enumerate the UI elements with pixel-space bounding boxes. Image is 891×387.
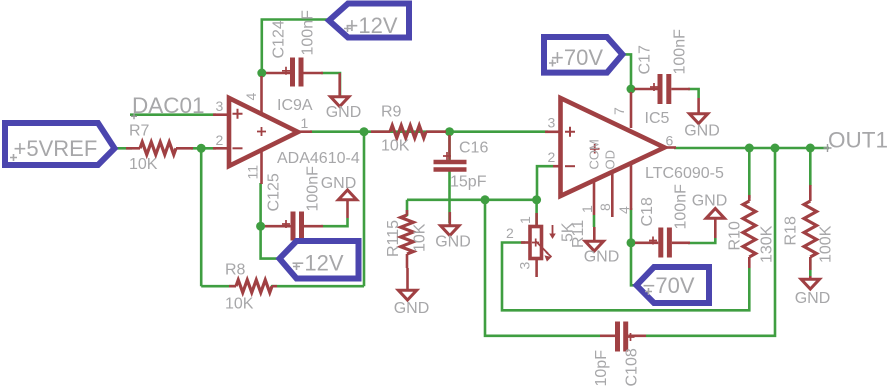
pin number 4 of IC5 — [616, 206, 632, 214]
svg-text:C17: C17 — [637, 45, 654, 74]
wire +5VREF to R7 — [114, 147, 132, 150]
svg-text:C125: C125 — [266, 173, 283, 211]
wire C16 bottom to GND and rail — [448, 171, 451, 223]
wire outer feedback loop left — [485, 200, 600, 336]
svg-text:6: 6 — [666, 133, 674, 149]
label R11 5K — [560, 220, 588, 248]
svg-text:OUT1: OUT1 — [828, 128, 888, 153]
svg-text:GND: GND — [692, 193, 728, 210]
svg-text:7: 7 — [611, 107, 627, 115]
svg-text:1: 1 — [579, 205, 595, 213]
label R18 — [783, 216, 835, 263]
wire R8 right to feedback column — [271, 285, 364, 288]
wire output to R18 — [809, 148, 812, 186]
wire C125 node to -12V — [261, 226, 281, 258]
svg-text:100K: 100K — [818, 225, 835, 263]
svg-text:8: 8 — [597, 203, 613, 211]
wire C125 to GND — [321, 218, 348, 226]
svg-text:GND: GND — [795, 290, 831, 307]
svg-text:130K: 130K — [759, 225, 776, 263]
svg-text:10K: 10K — [412, 223, 429, 252]
wire output to R10 — [748, 148, 751, 198]
junction +70V/C17/pin7 — [627, 85, 636, 94]
net label DAC01 — [131, 93, 205, 119]
pin number 1 of R11 — [517, 216, 533, 224]
wire feedback column up to output node — [363, 132, 366, 287]
svg-text:GND: GND — [321, 175, 357, 192]
label R7 — [129, 123, 158, 174]
junction C125/-12V/pin11 node — [256, 222, 265, 231]
capacitor C108 — [600, 322, 646, 352]
svg-text:GND: GND — [326, 104, 362, 121]
svg-text:2: 2 — [506, 225, 514, 241]
pin number 2 of R11 — [506, 225, 514, 241]
wire C18 to GND — [688, 238, 715, 243]
svg-text:+5VREF: +5VREF — [14, 136, 98, 161]
svg-text:R7: R7 — [129, 123, 150, 140]
ground at C124 — [326, 73, 362, 121]
junction rail/trimmer/pin2 — [532, 195, 541, 204]
svg-text:15pF: 15pF — [450, 174, 487, 191]
svg-text:1: 1 — [301, 115, 309, 131]
op-amp U IC5 triangle — [545, 92, 676, 217]
svg-text:10pF: 10pF — [593, 350, 610, 387]
pin number 3 of IC9A — [216, 98, 224, 114]
svg-text:100nF: 100nF — [673, 184, 690, 230]
svg-text:C108: C108 — [624, 348, 641, 386]
wire IC9A pin 11 to C125 node — [259, 183, 262, 229]
wire trimmer pin 2 loop to R10 bottom — [502, 243, 749, 311]
svg-text:10K: 10K — [225, 296, 254, 313]
label R9 — [381, 104, 410, 155]
svg-text:−12V: −12V — [292, 251, 344, 276]
capacitor C18 — [635, 228, 690, 258]
svg-text:+12V: +12V — [346, 13, 398, 38]
wire rail up to IC5 pin 2 — [537, 166, 553, 200]
svg-text:IC5: IC5 — [645, 110, 670, 127]
svg-text:R115: R115 — [385, 220, 402, 257]
wire +70V to pin 7 node — [621, 54, 631, 92]
wire outer feedback loop right — [646, 148, 775, 336]
svg-text:4: 4 — [243, 93, 259, 101]
svg-text:4: 4 — [616, 206, 632, 214]
ground at R18 — [795, 276, 831, 307]
pin number 4 of IC9A — [243, 93, 259, 101]
junction rail/outer loop — [481, 195, 490, 204]
svg-text:−70V: −70V — [643, 273, 695, 298]
svg-text:R8: R8 — [225, 262, 246, 279]
junction output/R18 — [806, 144, 815, 153]
resistor R18 — [804, 185, 817, 270]
svg-text:C124: C124 — [271, 20, 288, 58]
wire output node down to C16 — [448, 132, 451, 160]
svg-text:GND: GND — [394, 300, 430, 317]
svg-text:GND: GND — [684, 123, 720, 140]
svg-text:R9: R9 — [381, 104, 402, 121]
capacitor C124 — [266, 58, 323, 87]
svg-text:R11: R11 — [570, 220, 587, 248]
pin number 11 of IC9A — [245, 165, 261, 180]
ground at IC5 pin 1 — [584, 227, 620, 266]
pin number 1 of IC9A — [301, 115, 309, 131]
svg-text:100nF: 100nF — [672, 29, 689, 75]
resistor R9 — [371, 125, 446, 138]
resistor R10 — [743, 195, 756, 268]
svg-text:3: 3 — [548, 115, 556, 131]
svg-text:GND: GND — [435, 234, 471, 251]
pin number 3 of R11 — [517, 262, 533, 270]
junction IC9A output/feedback — [360, 127, 369, 136]
junction output/R10 — [745, 144, 754, 153]
wire R18 to GND — [809, 258, 812, 276]
wire IC9A output to R9 and LTC pin 3 — [310, 130, 548, 133]
pin number 3 of IC5 — [548, 115, 556, 131]
label C17 — [637, 29, 689, 75]
svg-text:100nF: 100nF — [300, 10, 317, 56]
label IC9A — [277, 97, 313, 114]
svg-text:100nF: 100nF — [305, 166, 322, 212]
svg-text:3: 3 — [517, 262, 533, 270]
pin number 7 of IC5 — [611, 107, 627, 115]
supply flag -70V — [637, 267, 710, 303]
svg-text:COM: COM — [587, 139, 602, 169]
supply flag +12V — [329, 4, 409, 39]
svg-text:R10: R10 — [727, 221, 744, 250]
pin name OD of IC5 — [603, 150, 618, 170]
svg-text:IC9A: IC9A — [277, 97, 313, 114]
resistor R8 — [229, 280, 277, 293]
svg-text:2: 2 — [548, 149, 556, 165]
svg-text:GND: GND — [584, 249, 620, 266]
svg-text:2: 2 — [216, 132, 224, 148]
label C18 — [639, 184, 690, 230]
wire R8 left — [201, 285, 236, 288]
wire IC5 pin 1 to GND — [593, 215, 596, 227]
ground at C125 — [321, 175, 357, 218]
ground at C18 — [692, 193, 728, 239]
junction C124/+12V/pin4 node — [257, 69, 266, 78]
label C108 — [593, 348, 641, 386]
op-amp U IC9A triangle — [213, 76, 312, 184]
label C16 — [450, 140, 488, 191]
wire C17 to GND — [688, 89, 699, 98]
net label OUT1 — [824, 128, 889, 153]
pin number 2 of IC5 — [548, 149, 556, 165]
supply flag -12V — [280, 241, 359, 279]
pin name COM of IC5 — [587, 139, 602, 169]
label R8 — [225, 262, 254, 313]
junction output/C108 branch — [771, 144, 780, 153]
svg-text:10K: 10K — [129, 156, 158, 173]
svg-text:11: 11 — [245, 165, 261, 180]
wire inverting rail of IC5 — [407, 199, 537, 202]
svg-text:+70V: +70V — [551, 45, 603, 70]
supply flag +5VREF — [5, 123, 115, 165]
capacitor C17 — [634, 74, 690, 104]
svg-text:OD: OD — [603, 150, 618, 170]
label C125 — [266, 166, 322, 212]
pin number 2 of IC9A — [216, 132, 224, 148]
junction R9/C16 node — [445, 127, 454, 136]
capacitor C125 — [265, 212, 323, 241]
svg-text:1: 1 — [517, 216, 533, 224]
pin number 1 of IC5 — [579, 205, 595, 213]
label IC5 — [645, 110, 670, 127]
resistor R115 — [401, 210, 414, 268]
label R10 — [727, 221, 776, 263]
wire IC5 output rail — [674, 147, 829, 150]
junction pin4/C18/-70V — [627, 238, 636, 247]
wire R7 to inverting node — [191, 147, 216, 150]
ground at C16 — [435, 212, 471, 251]
wire C124 to GND — [321, 73, 340, 96]
label ADA4610-4 — [277, 150, 360, 167]
label C124 — [271, 10, 317, 59]
junction R7/pin2/R8 node — [197, 144, 206, 153]
svg-text:R18: R18 — [783, 216, 800, 245]
svg-text:DAC01: DAC01 — [132, 93, 205, 118]
wire rail down to R115 — [406, 200, 409, 216]
svg-text:C18: C18 — [639, 197, 656, 226]
resistor R7 — [126, 142, 193, 155]
pin number 6 of IC5 — [666, 133, 674, 149]
svg-text:3: 3 — [216, 98, 224, 114]
svg-text:LTC6090-5: LTC6090-5 — [645, 165, 724, 182]
capacitor C16 — [434, 135, 467, 172]
svg-text:ADA4610-4: ADA4610-4 — [277, 150, 360, 167]
ground at C17 — [684, 98, 720, 140]
wire +12V to C124 node — [262, 20, 328, 77]
pin number 8 of IC5 — [597, 203, 613, 211]
svg-text:10K: 10K — [381, 138, 410, 155]
supply flag +70V — [544, 37, 622, 73]
svg-text:C16: C16 — [459, 140, 488, 157]
wire inverting node down to R8 — [200, 148, 203, 286]
wire rail down to trimmer pin 1 — [535, 200, 538, 226]
wire IC5 pin 4 to -70V node — [631, 208, 640, 285]
wire DAC01 net to pin 3 of IC9A — [130, 113, 216, 116]
label R115 — [385, 220, 429, 257]
label LTC6090-5 — [645, 165, 724, 182]
trimmer R11 — [521, 213, 556, 277]
ground at R115 — [394, 268, 430, 317]
